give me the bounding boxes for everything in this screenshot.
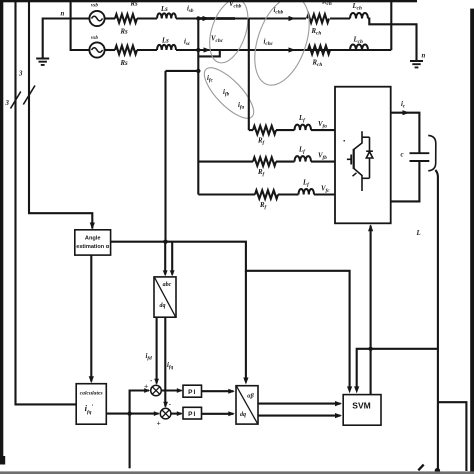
junction x198 y71 [196,69,200,73]
summer 1 [151,385,162,396]
svg-text:Ls: Ls [160,6,168,13]
junction dot bottom [435,468,440,473]
inductor Lch (row b) [350,13,368,18]
block dq-alphabeta transform [236,386,258,424]
svg-text:calculates: calculates [80,391,103,397]
arrow isb [203,16,210,21]
filter branch fc: resistor Rf + inductor Lf + label Vfc [198,193,255,195]
wire angle to calculates [90,255,92,381]
svg-text:c: c [401,152,404,159]
arrows into abc-dq box [163,270,168,276]
resistor Rch (row b) [307,14,329,22]
junction ref [127,411,131,415]
svg-text:3: 3 [18,71,23,78]
wire abc inputs [165,242,172,275]
block PI 1 [183,385,202,397]
oval Vch measurement [202,0,255,68]
svg-text:PI: PI [188,411,196,418]
wire SVM gate out to converter [370,226,372,395]
svg-text:n: n [422,53,426,60]
resistor Rs (row b) [115,14,137,22]
wire Vdc sense to SVM [357,349,438,389]
block abc-dq transform [154,277,176,317]
svg-text:estimation α: estimation α [76,244,110,250]
arrow PI1 out [228,389,235,394]
oval ich measurement [244,0,319,92]
arrow into calculates box [89,376,94,383]
arrow ifq into summer2 [163,402,168,408]
wire current feed down x165 [164,71,166,242]
svg-text:PI: PI [188,389,196,396]
wire neutral row b [43,19,90,59]
wire row c from top [71,2,90,51]
svg-text:vsb: vsb [91,3,98,9]
neutral bus vertical [390,2,392,51]
arrow valpha into SVM [335,401,342,406]
arrow ichc [289,47,296,52]
filter branch fa: resistor Rf + inductor Lf + label Vfa [249,129,253,131]
wire alpha to dq-ab box [245,271,247,379]
junction Vdc bottom tee [438,402,467,471]
svg-text:+: + [157,419,161,428]
wire Rs to Ls row c [137,49,157,51]
block angle estimation [75,230,111,255]
wire dc top to capacitor [391,113,420,154]
wire PI2 to dq-ab [202,413,234,415]
ground (load neutral) n [410,61,423,67]
arrow into dq-ab top [243,378,248,385]
source vsb [89,3,104,27]
block SVM [343,395,381,426]
inductor Lch (row c) [350,45,368,51]
svg-text:dq: dq [160,303,166,309]
arrow gate into converter [368,224,373,231]
arrow into summer2 [154,411,160,416]
svg-text:αβ: αβ [247,394,254,400]
block PI 2 [183,407,202,419]
arrow alpha into SVM top [347,386,352,393]
capacitor C [410,153,430,161]
source vsc [89,35,104,58]
wire Vchb drop to filter branch a [248,19,250,131]
svg-text:n: n [61,11,65,18]
wire ifq* reference [106,413,158,415]
filter branch fb: resistor Rf + inductor Lf + label Vfb [198,161,253,163]
junction isc [196,48,200,52]
wire Rch to Lch row b [330,17,350,19]
brace Vdc [428,135,436,170]
arrow Vdc into SVM top [354,386,359,393]
slash 3-phase line A [11,92,21,109]
svg-text:Ls: Ls [161,38,169,45]
ground (source neutral) [36,59,49,65]
IGBT with antiparallel diode (inside converter) [343,131,372,191]
arrow ic + label [403,110,410,115]
arrow ifd into summer [154,379,159,385]
arrow ichb [289,16,296,21]
svg-text:L: L [416,230,421,237]
wire alpha out [111,242,350,389]
svg-text:dq: dq [240,412,246,418]
wire summer2 to PI2 [171,413,182,415]
inductor Ls (row c) [157,45,176,50]
arrow mark cut at bottom [418,465,423,471]
wire ref down to edge [129,414,131,469]
svg-text:Rs: Rs [120,60,129,67]
wire Rs to Ls row b [137,17,157,19]
wire voltage sense line B [29,2,92,229]
arrow into PI2 [177,411,183,416]
svg-text:Rs: Rs [120,29,129,36]
tap Vchc [198,50,220,56]
wire dc bottom from capacitor [391,161,420,201]
wire PI1 to dq-ab [202,390,234,392]
wire Ls to load row b / label isb [176,17,249,19]
arrow PI2 out [228,411,235,416]
junction gate/vdc cross [368,347,372,351]
wire Vdc sense down [435,170,438,470]
wire voltage sense line A [16,2,77,405]
resistor Rs (row c) [115,46,137,54]
oval if measurement [197,61,261,126]
wire vbeta* to SVM [258,415,341,417]
arrow into PI1 [177,388,183,393]
wire ifd down [156,317,158,383]
arrow into angle box [90,223,95,230]
wire valpha* to SVM [258,403,341,405]
arrow vbeta into SVM [335,413,342,418]
wire Ls to load row c / label isc [176,49,391,51]
svg-text:Angle: Angle [85,236,101,242]
svg-text:vsb: vsb [91,35,98,41]
junction current line on alpha wire [163,240,167,244]
inductor Ls (row b) [157,13,176,18]
slash 3-phase line B [23,86,35,105]
wire vsc to Rs [105,49,115,51]
wire tap drop x198 [197,19,199,195]
summer 2 [160,408,171,419]
wire summer1 to PI1 [161,389,181,391]
wire ifq down [164,317,166,406]
wire Lch jog to neutral bus [368,19,417,61]
resistor Rch (row c) [308,46,330,54]
arrow into summer1 [144,388,150,393]
svg-text:SVM: SVM [352,401,370,411]
wire vsb to Rs [105,17,115,19]
wire to Rch row b [249,17,306,19]
junction row b tap [196,16,200,20]
wire y71 to left [166,70,199,72]
svg-text:3: 3 [5,100,10,107]
converter box U1 [335,87,391,224]
svg-text:abc: abc [163,282,172,288]
block calculates ifq* [76,384,106,425]
arrow isc [204,47,211,52]
wire ref up to summer1 [130,391,149,414]
